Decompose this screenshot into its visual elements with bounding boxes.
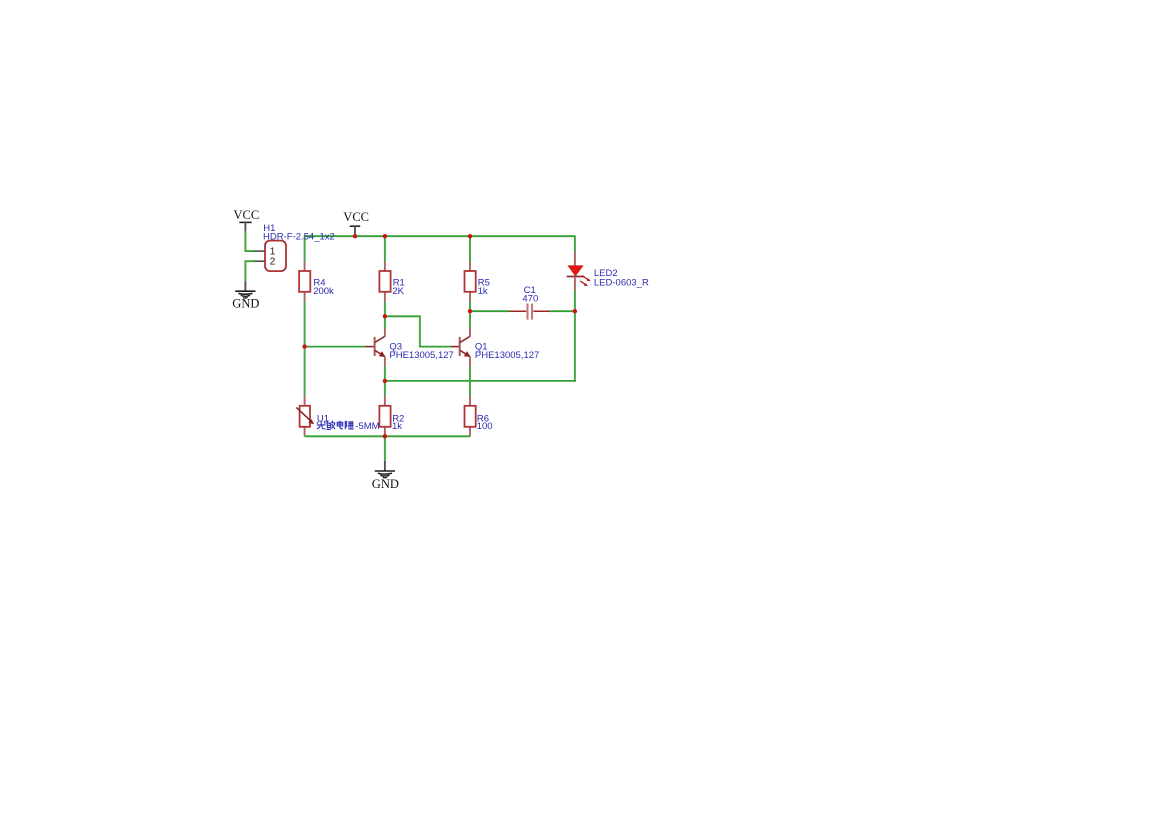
node E (Q3 emitter rail)	[383, 379, 387, 383]
value 光敏电阻-5MM (CJK drawn as strokes)	[317, 421, 354, 430]
svg-text:1k: 1k	[392, 421, 402, 432]
svg-text:PHE13005,127: PHE13005,127	[475, 350, 539, 361]
wire R4 to node A	[304, 301, 306, 346]
node D (C1/LED)	[573, 309, 577, 313]
resistor R2 1k	[379, 395, 404, 436]
power flag VCC (left, net VCC)	[234, 208, 260, 231]
svg-text:HDR-F-2.54_1x2: HDR-F-2.54_1x2	[263, 232, 335, 243]
resistor R6 100	[465, 395, 493, 436]
ground GND (left)	[232, 282, 259, 311]
wire LED cathode to node D	[574, 291, 576, 311]
svg-text:2: 2	[270, 257, 276, 268]
svg-text:VCC: VCC	[234, 208, 260, 222]
wire bottom rail U1-R2-R6	[305, 435, 470, 437]
wire node E down to R2	[384, 381, 386, 396]
ground GND (bottom)	[372, 461, 399, 491]
connector H1 labels	[263, 223, 335, 242]
node A (R4/Q3 base)	[302, 344, 306, 348]
wire Q3 emitter to node E	[384, 367, 386, 381]
node R5 top	[468, 234, 472, 238]
wire bus to R4	[304, 236, 306, 262]
node R1 top	[383, 234, 387, 238]
svg-text:GND: GND	[372, 477, 399, 491]
wire VCC bus (top horizontal)	[305, 235, 575, 237]
wire node B cross-coupling to Q1 base	[385, 315, 421, 317]
wire R5 to node C	[469, 301, 471, 311]
power flag VCC (top, taps bus)	[343, 210, 369, 236]
wire node C to C1	[470, 310, 510, 312]
svg-text:2K: 2K	[392, 286, 404, 297]
wire H1 pin 2 to GND	[245, 260, 256, 262]
transistor Q1 PHE13005,127	[451, 329, 539, 367]
node B (R1/Q3 collector)	[383, 314, 387, 318]
svg-text:-5MM: -5MM	[355, 421, 379, 432]
svg-text:LED-0603_R: LED-0603_R	[594, 277, 649, 288]
node C (R5/Q1 collector/C1)	[468, 309, 472, 313]
svg-text:470: 470	[522, 293, 538, 304]
photoresistor U1	[296, 395, 379, 436]
resistor R1 2K	[379, 262, 404, 302]
wire R1 to node B	[384, 301, 386, 316]
svg-text:200k: 200k	[313, 286, 334, 297]
wire Q1 emitter down to R6 (crosses rail, no junction)	[469, 367, 471, 396]
node F (bottom rail/GND)	[383, 434, 387, 438]
svg-text:GND: GND	[232, 297, 259, 311]
wire bus to R1	[384, 236, 386, 262]
transistor Q3 PHE13005,127	[365, 329, 453, 367]
wire bus down-right to LED anode	[574, 235, 576, 252]
connector H1 HDR-F-2.54_1x2	[255, 241, 286, 272]
wire bottom rail to GND	[384, 436, 386, 461]
junction dots	[302, 234, 577, 438]
wire node A to Q3 base	[305, 346, 366, 348]
wire node D down to emitter rail	[574, 311, 576, 382]
wire node C to Q1 collector	[469, 311, 471, 329]
wire node A down to U1	[304, 347, 306, 396]
svg-text:PHE13005,127: PHE13005,127	[389, 350, 453, 361]
svg-text:1k: 1k	[478, 286, 488, 297]
svg-text:100: 100	[477, 421, 493, 432]
resistor R4 200k	[299, 262, 334, 302]
resistor R5 1k	[465, 262, 490, 302]
wire bus to R5	[469, 236, 471, 262]
capacitor C1 470	[509, 285, 549, 320]
node VCC tap	[353, 234, 357, 238]
wire C1 to node D	[549, 310, 575, 312]
wire node B to Q3 collector	[384, 316, 386, 329]
LED LED2	[567, 252, 649, 291]
svg-text:VCC: VCC	[343, 210, 369, 224]
wire VCC to H1 pin 1	[244, 231, 246, 252]
